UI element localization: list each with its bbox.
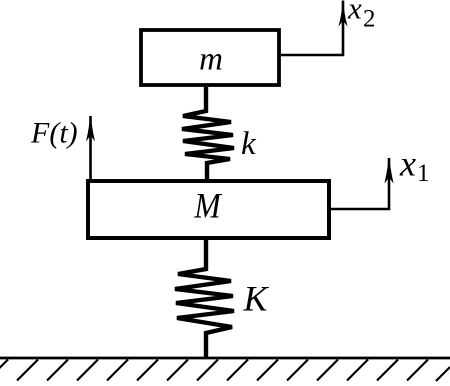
svg-text:M: M xyxy=(193,187,222,226)
svg-text:x: x xyxy=(399,144,416,184)
svg-text:k: k xyxy=(241,126,257,162)
svg-text:K: K xyxy=(243,279,270,319)
svg-text:F(t): F(t) xyxy=(30,117,78,150)
svg-text:x: x xyxy=(347,0,362,26)
svg-text:m: m xyxy=(199,41,223,77)
svg-text:2: 2 xyxy=(363,6,376,33)
svg-text:1: 1 xyxy=(417,160,430,187)
